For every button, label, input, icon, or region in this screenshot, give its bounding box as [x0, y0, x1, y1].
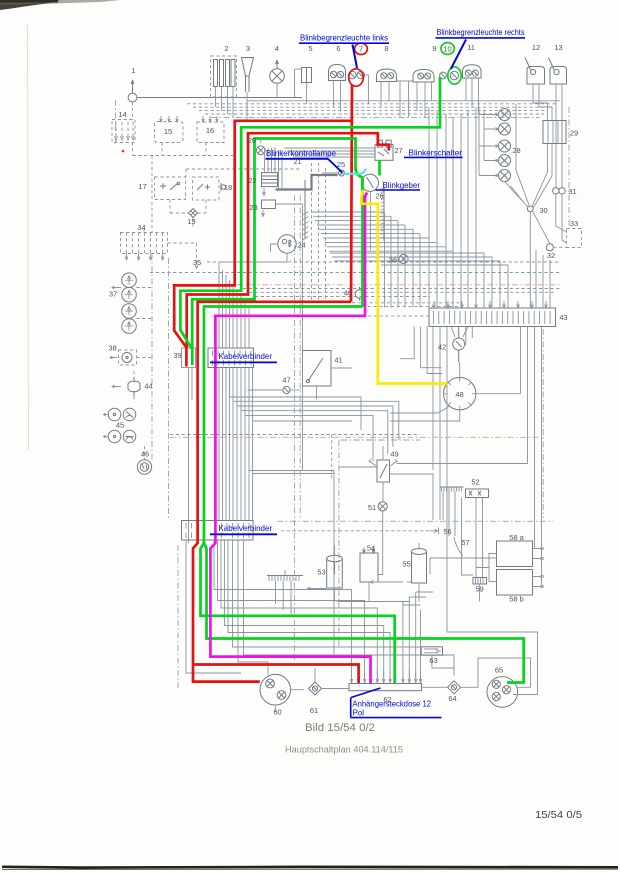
component 29 (box): [543, 121, 566, 144]
red circle around lamp 7: [349, 69, 364, 86]
node 35 dashes: [168, 242, 197, 244]
svg-text:43: 43: [559, 313, 567, 322]
component 58b: [497, 570, 533, 596]
svg-text:4: 4: [275, 44, 279, 53]
svg-text:16: 16: [206, 126, 214, 135]
component 22 fan: [265, 148, 283, 190]
component 55 (cylinder): [412, 549, 427, 555]
component 46: [137, 460, 151, 474]
svg-text:15: 15: [164, 127, 172, 136]
component 32: [546, 244, 553, 251]
gray loop wires to lamp 65: [447, 327, 538, 695]
component 1 (horn): [128, 93, 137, 102]
svg-text:65: 65: [495, 666, 503, 675]
bottom page edge dark line: [2, 865, 618, 868]
connector 62-area lower Kabelverbinder box: [182, 521, 254, 541]
wire red upper loop: lamp7 bus to left column to connector 39: [174, 121, 351, 367]
svg-text:31: 31: [568, 187, 576, 196]
svg-text:29: 29: [570, 129, 578, 138]
wire magenta from Blinkgeber to connector 62: [210, 193, 370, 684]
svg-text:38: 38: [108, 344, 116, 353]
wire green3 long: bend y306 left and down to bottom: [201, 307, 395, 684]
bundle between connectors: [189, 368, 253, 544]
component 61 (diamond): [309, 682, 322, 695]
svg-text:14: 14: [118, 110, 126, 119]
svg-text:57: 57: [461, 538, 469, 547]
svg-text:58 b: 58 b: [509, 595, 524, 604]
thick wire from node 25 to component 22: [276, 175, 338, 190]
svg-text:41: 41: [334, 356, 342, 365]
svg-text:12: 12: [532, 43, 540, 52]
lamp 10 (pair): [440, 72, 447, 79]
component 36 (lamp): [399, 254, 408, 263]
component 17 (dashed box): [155, 177, 186, 200]
component 12: [527, 67, 545, 85]
svg-text:37: 37: [109, 290, 117, 299]
svg-text:24: 24: [297, 241, 305, 250]
wire green2 Blinkgeber branch down right side: [192, 139, 362, 351]
red speck: [122, 150, 125, 153]
svg-text:47: 47: [282, 376, 290, 385]
svg-text:2: 2: [224, 44, 228, 53]
svg-text:15/54 0/5: 15/54 0/5: [535, 809, 582, 821]
svg-text:17: 17: [138, 182, 146, 191]
wire red2 to Blinkerschalter 27: [187, 133, 389, 348]
svg-text:Hauptschaltplan 404.114/115: Hauptschaltplan 404.114/115: [285, 745, 403, 755]
svg-text:23: 23: [249, 203, 257, 212]
comb ground strip: [267, 575, 303, 577]
component 57 wire: [454, 537, 463, 556]
lamp 7 (pair): [349, 71, 357, 79]
svg-text:48: 48: [455, 390, 463, 399]
component 53 (cylinder): [327, 555, 343, 561]
wire green from lamp 10 loop to connector 39: [180, 77, 440, 365]
svg-text:53: 53: [317, 568, 325, 577]
component 24: [278, 235, 296, 253]
circle 48: [444, 378, 476, 410]
long dashed horizontals mid page: [207, 261, 560, 263]
svg-text:21: 21: [293, 157, 301, 166]
colored wires: [174, 43, 524, 684]
svg-text:Blinkbegrenzleuchte rechts: Blinkbegrenzleuchte rechts: [437, 28, 525, 37]
svg-text:6: 6: [336, 44, 340, 53]
svg-text:13: 13: [554, 43, 562, 52]
component 5: [302, 68, 312, 83]
connector strip 43: [429, 308, 556, 327]
component 56: [430, 528, 439, 535]
hatched vertical line: [304, 180, 306, 239]
vertical bundle from bus to strip 43: [429, 107, 476, 307]
gray printed network: [104, 56, 582, 712]
svg-text:20: 20: [248, 136, 256, 145]
component 19 (diamond): [189, 209, 198, 218]
svg-text:63: 63: [429, 656, 437, 665]
svg-text:34: 34: [137, 223, 145, 232]
component 16 (dashed box): [197, 122, 224, 143]
lamp 60: [260, 674, 291, 705]
svg-text:Blinkerschalter: Blinkerschalter: [409, 148, 463, 157]
svg-text:46: 46: [141, 450, 149, 459]
svg-text:54: 54: [367, 544, 375, 553]
svg-text:64: 64: [448, 694, 456, 703]
svg-text:61: 61: [310, 706, 318, 715]
numbers: [108, 43, 578, 717]
svg-text:Pol: Pol: [353, 708, 365, 717]
connector 62 (trailer socket): [349, 684, 422, 691]
thick gray wires: [276, 175, 338, 190]
svg-text:51: 51: [368, 503, 376, 512]
svg-text:8: 8: [384, 44, 388, 53]
blue labels: [210, 28, 525, 717]
svg-text:60: 60: [273, 708, 281, 717]
svg-text:Kabelverbinder: Kabelverbinder: [219, 352, 273, 361]
lamp 11 (dome): [463, 65, 482, 78]
svg-text:10: 10: [443, 45, 451, 54]
red circle around number 7: [355, 43, 368, 54]
svg-text:30: 30: [539, 206, 547, 215]
component 4 (lamp): [270, 69, 285, 84]
dash-dot long verticals left of bundle: [294, 195, 296, 660]
lamp 8 (dome): [377, 69, 397, 82]
component 58a: [497, 541, 533, 567]
svg-text:44: 44: [144, 382, 152, 391]
svg-text:7: 7: [359, 45, 363, 54]
bottom bundle fan to connector 62: [214, 540, 352, 683]
component 3 (funnel): [242, 58, 254, 77]
component 13: [550, 67, 567, 85]
component 64 (diamond): [448, 681, 461, 694]
component 52 (comb connector): [440, 486, 464, 488]
component 37 (gauges column): [122, 273, 137, 288]
wires veering right below 39: [230, 368, 399, 474]
component 18 (dashed box): [193, 177, 220, 200]
wire from 1 to bus: [137, 97, 302, 99]
svg-text:33: 33: [570, 219, 578, 228]
svg-text:49: 49: [390, 450, 398, 459]
right side long verticals: [520, 327, 522, 394]
Blinkerschalter box 27: [375, 145, 393, 161]
wire red3 long: from bend y302 left, down through Kabelverbinder to bottom: [193, 302, 351, 682]
green circle around lamp 10: [448, 67, 461, 84]
wire green switch to Blinkgeber: [378, 161, 381, 176]
pink dashed mid line: [170, 436, 545, 438]
svg-text:Blinkbegrenzleuchte links: Blinkbegrenzleuchte links: [300, 34, 388, 43]
lamp 65: [487, 677, 518, 708]
node 30: [527, 206, 533, 212]
svg-text:32: 32: [547, 251, 555, 260]
svg-text:40: 40: [344, 289, 352, 298]
hatched ground line below Blinkgeber: [383, 186, 385, 241]
svg-text:22: 22: [248, 176, 256, 185]
svg-text:5: 5: [308, 44, 312, 53]
svg-text:3: 3: [246, 44, 250, 53]
component 59: [473, 578, 487, 585]
wire red branch to connector 62: [193, 665, 359, 684]
svg-text:36: 36: [389, 256, 397, 265]
component 54 (box): [360, 553, 378, 582]
lamp 9 (dome): [413, 70, 434, 83]
dashed enclosure mid-bottom: [338, 440, 340, 648]
svg-text:27: 27: [394, 146, 402, 155]
wire green4 to lamp 65: [204, 543, 524, 683]
svg-text:26: 26: [375, 192, 383, 201]
svg-text:Anhängersteckdose 12: Anhängersteckdose 12: [353, 699, 432, 708]
svg-text:Kabelverbinder: Kabelverbinder: [219, 524, 273, 533]
wires above connector 39: [219, 262, 249, 348]
svg-text:62: 62: [383, 695, 391, 704]
circle 20: [256, 146, 265, 155]
component 47: [283, 386, 290, 393]
connector 39 (upper Kabelverbinder): [208, 348, 254, 368]
component 49 (relay): [377, 460, 390, 482]
svg-text:42: 42: [438, 343, 446, 352]
component 31 (two small circles): [553, 188, 559, 194]
footer: [285, 722, 582, 821]
wire red trunk from lamp 7 down to bend at y302: [351, 85, 352, 302]
wire cyan at node 25: [343, 169, 367, 174]
svg-text:9: 9: [432, 44, 436, 53]
top-left dark smudge: [0, 0, 60, 10]
wire yellow from Blinkgeber to circle 48: [361, 190, 447, 384]
Blinkgeber circle 26: [361, 174, 378, 191]
lamp 6 (dome): [329, 65, 346, 81]
svg-text:19: 19: [187, 217, 195, 226]
svg-text:55: 55: [402, 560, 410, 569]
svg-text:35: 35: [193, 258, 201, 267]
dashed links 14/15/16: [132, 143, 134, 156]
svg-text:28: 28: [512, 146, 520, 155]
svg-text:11: 11: [467, 43, 475, 52]
component 44: [128, 381, 140, 391]
dashed verticals near 21: [311, 163, 313, 300]
svg-text:45: 45: [116, 421, 124, 430]
component 23: [262, 200, 276, 209]
svg-text:25: 25: [337, 160, 345, 169]
svg-text:39: 39: [173, 351, 181, 360]
component 14 (dashed fuse box): [112, 120, 135, 143]
svg-text:18: 18: [224, 183, 232, 192]
right-side wires down to 62: [403, 592, 421, 683]
svg-text:Blinkgeber: Blinkgeber: [383, 181, 421, 190]
component 63: [421, 647, 442, 655]
svg-text:56: 56: [443, 527, 451, 536]
component 28 (five lamp circles): [479, 107, 511, 181]
bus lines: [247, 100, 560, 102]
component 41 (switch box): [303, 351, 332, 387]
component 34 (connector grid): [121, 233, 168, 254]
svg-text:1: 1: [131, 66, 135, 75]
component 2 (fuse bank): [211, 56, 237, 97]
node 25: [339, 170, 345, 176]
component 40: [355, 290, 364, 299]
component 38: [119, 350, 137, 365]
component 45 (two circle pairs): [108, 408, 121, 421]
svg-text:Bild 15/54 0/2: Bild 15/54 0/2: [305, 722, 375, 734]
svg-text:52: 52: [471, 478, 479, 487]
svg-text:59: 59: [475, 585, 483, 594]
faint page-edge line left: [28, 25, 29, 450]
component 15 (dashed box): [155, 122, 184, 143]
green circle around number 10: [441, 43, 454, 55]
svg-text:58 a: 58 a: [509, 533, 524, 542]
component 51: [378, 502, 387, 511]
component 42: [453, 338, 465, 350]
component 33 (dashed box): [567, 229, 582, 248]
wires 12/13 down to 29 and 31: [533, 84, 548, 121]
